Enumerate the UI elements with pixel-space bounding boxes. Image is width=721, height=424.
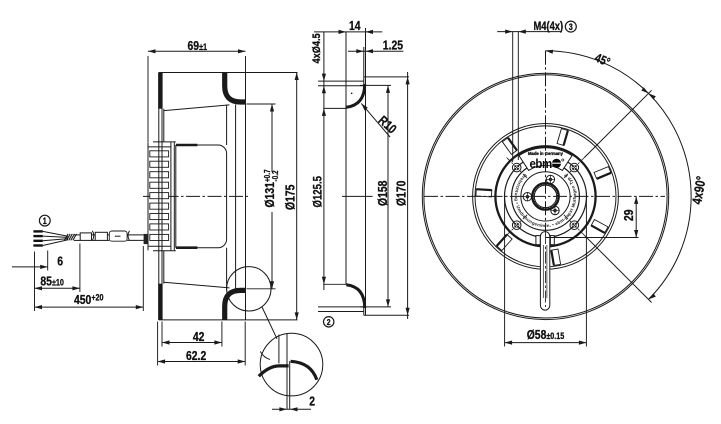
svg-text:6: 6 <box>57 254 63 268</box>
svg-text:Ø158: Ø158 <box>376 180 390 206</box>
svg-text:2: 2 <box>327 317 331 327</box>
svg-text:Ø125.5: Ø125.5 <box>312 176 325 207</box>
svg-text:3: 3 <box>569 22 573 32</box>
svg-text:Ø170: Ø170 <box>395 180 409 206</box>
svg-text:1.25: 1.25 <box>383 38 404 52</box>
svg-text:42: 42 <box>193 330 205 344</box>
svg-text:1: 1 <box>43 216 47 226</box>
svg-text:29: 29 <box>622 209 636 221</box>
svg-text:M4(4x): M4(4x) <box>534 20 564 33</box>
svg-text:4xØ4.5: 4xØ4.5 <box>311 33 323 63</box>
svg-text:62.2: 62.2 <box>186 349 207 363</box>
svg-text:2: 2 <box>309 394 315 408</box>
svg-text:ebm: ebm <box>530 157 552 172</box>
svg-text:Ø175: Ø175 <box>284 184 298 210</box>
svg-text:14: 14 <box>349 19 361 33</box>
